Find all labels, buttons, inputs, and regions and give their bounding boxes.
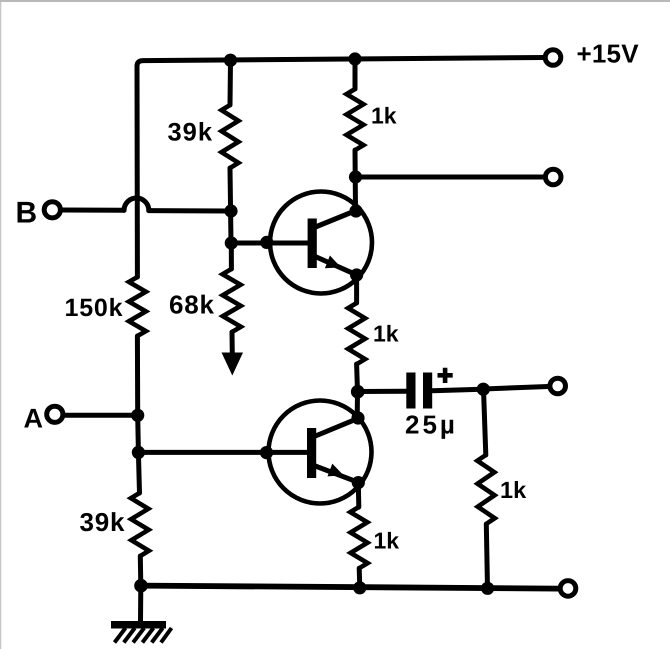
ground hatch 5 (152, 628, 163, 643)
svg-text:68k: 68k (169, 290, 215, 320)
resistor 68k (223, 269, 241, 332)
terminal output1 (545, 169, 561, 185)
wire cap node to capacitor (358, 389, 406, 394)
resistor 1k (top) (347, 89, 364, 150)
wire +15V top rail (137, 58, 545, 71)
node base1 junction (225, 236, 238, 249)
node ground-rail left (134, 579, 148, 593)
wire bottom rail (141, 586, 559, 589)
svg-text:39k: 39k (168, 119, 214, 147)
wire left branch upper (to 150k) (135, 66, 140, 277)
svg-text:A: A (24, 404, 44, 434)
svg-text:1k: 1k (374, 528, 400, 554)
ground hatch 2 (124, 628, 135, 643)
resistor 39k (bottom) (131, 493, 149, 556)
wire base1 node to 68k (229, 243, 234, 269)
resistor 1k (right) (477, 455, 495, 524)
scan edge top (0, 0, 670, 2)
node collector1 (349, 204, 362, 217)
wire capacitor to right node (432, 389, 482, 390)
node bottom rail right (481, 582, 494, 595)
wire 1k branch upper (353, 60, 358, 90)
wire 1k emitter to bottom rail (357, 568, 363, 588)
terminal output2 (550, 378, 566, 394)
ground hatch 4 (142, 628, 153, 643)
wire base Q2 (138, 450, 307, 455)
transistor Q1 (270, 192, 372, 294)
node base2 circle edge (260, 446, 273, 459)
node right junction (477, 383, 490, 396)
wire left branch A to base2 (135, 415, 141, 452)
scan edge left (0, 2, 1, 649)
wire B to hop (62, 208, 125, 213)
node bottom rail mid (353, 581, 366, 594)
node base1 circle edge (260, 236, 273, 249)
node top-rail / 39k junction (224, 54, 237, 67)
svg-text:+15V: +15V (577, 39, 640, 69)
wire hop over left branch (124, 198, 149, 211)
ground hatch 6 (161, 628, 172, 643)
wire A to left branch (66, 413, 136, 418)
svg-text:1k: 1k (500, 477, 527, 503)
wire 39k to ground rail (138, 556, 144, 586)
node top-rail / 1k junction (348, 52, 361, 65)
wire hop to B node (149, 208, 227, 213)
node capacitor junction (351, 385, 365, 399)
terminal +15V (545, 50, 561, 66)
node emitter2 (352, 476, 365, 489)
resistor 150k (129, 277, 146, 336)
resistor 1k (middle) (348, 303, 365, 364)
wire 1k to collector node (353, 150, 359, 209)
wire output2 (483, 387, 548, 390)
transistor Q2 (269, 401, 372, 504)
wire output1 (356, 175, 545, 180)
node base2 left junction (132, 446, 145, 459)
wire right branch upper (484, 389, 486, 455)
capacitor C 25u plate left (406, 373, 415, 409)
svg-text:B: B (16, 197, 38, 230)
resistor 1k (emitter Q2) (350, 507, 367, 568)
terminal B (44, 202, 60, 218)
resistor 39k (top) (222, 105, 239, 168)
svg-text:39k: 39k (80, 507, 126, 537)
svg-text:1k: 1k (373, 321, 399, 347)
wire collector2 to cap node (355, 392, 360, 419)
wire base Q1 (231, 241, 308, 246)
capacitor C 25u plate right (423, 373, 432, 409)
wire emitter2 down (356, 483, 362, 507)
node B junction (224, 204, 237, 217)
terminal bottom (560, 581, 576, 597)
arrow to negative rail (222, 353, 244, 376)
node collector2 (351, 411, 364, 424)
wire left branch 150k to A (135, 336, 140, 415)
svg-text:25µ: 25µ (405, 409, 458, 439)
svg-text:150k: 150k (65, 294, 124, 322)
ground bar (111, 621, 166, 629)
wire left branch base2 to 39k (138, 452, 139, 493)
node A junction (131, 409, 144, 422)
wire 1k middle to cap node (354, 364, 360, 392)
ground hatch 1 (115, 628, 126, 643)
wire 39k branch upper (228, 61, 234, 106)
node output1 junction (349, 170, 362, 183)
capacitor polarity plus (438, 368, 453, 383)
node emitter1 (350, 268, 363, 281)
wire right branch lower (486, 524, 487, 588)
wire ground stem (138, 586, 143, 621)
terminal A (47, 406, 63, 422)
wire 68k to arrow (230, 332, 235, 355)
wire 39k to B node (230, 168, 231, 243)
wire emitter1 down (354, 275, 359, 303)
ground hatch 3 (133, 628, 144, 643)
svg-text:1k: 1k (371, 103, 397, 129)
